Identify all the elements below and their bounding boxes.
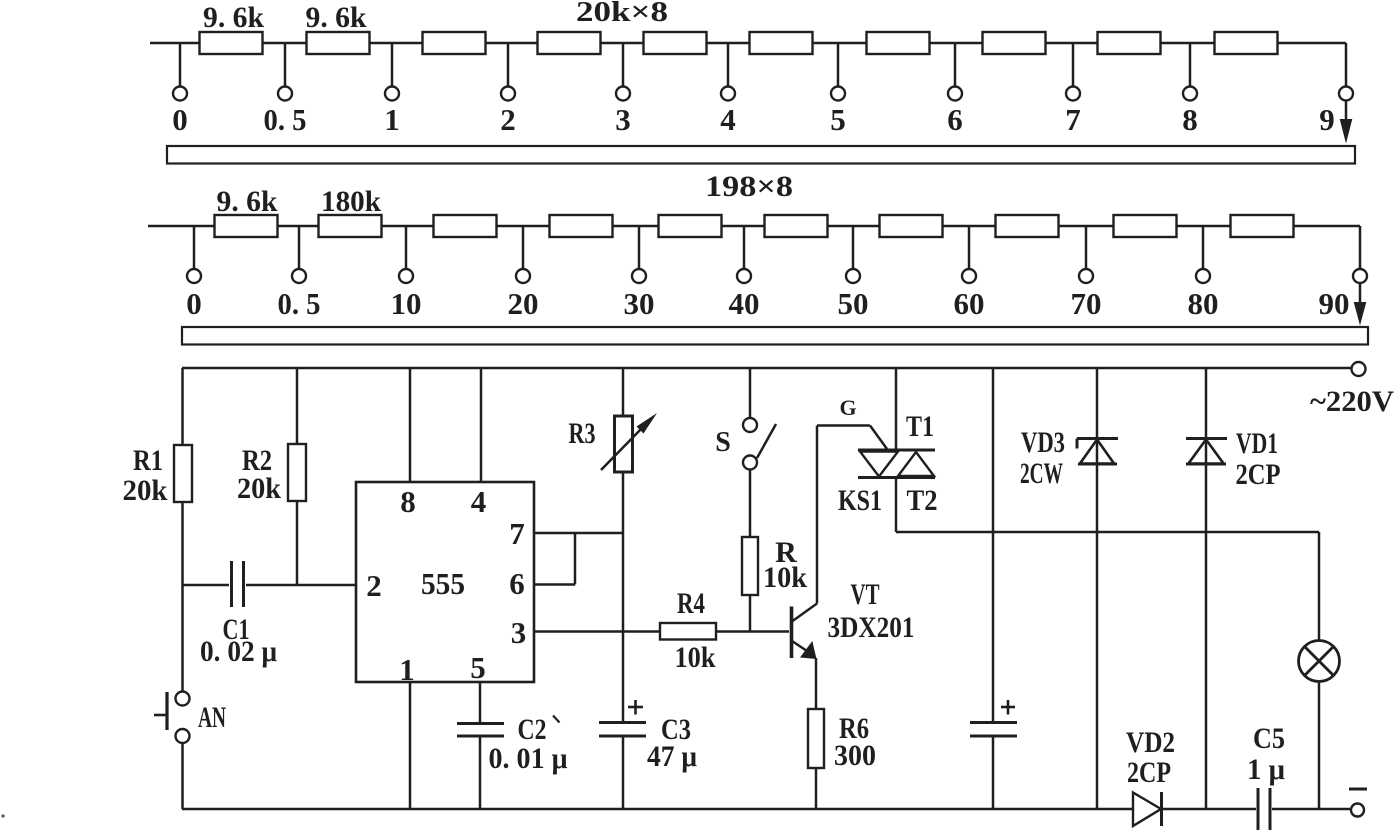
svg-text:0. 02 μ: 0. 02 μ: [200, 635, 277, 668]
svg-text:50: 50: [838, 286, 869, 321]
svg-text:0: 0: [172, 102, 188, 137]
svg-text:3DX201: 3DX201: [828, 611, 915, 644]
svg-text:S: S: [715, 427, 731, 458]
svg-text:7: 7: [509, 516, 525, 551]
svg-text:180k: 180k: [321, 185, 381, 218]
svg-text:1: 1: [384, 102, 400, 137]
svg-text:3: 3: [615, 102, 631, 137]
svg-text:8: 8: [1182, 102, 1198, 137]
svg-text:2: 2: [366, 568, 382, 603]
svg-text:10k: 10k: [763, 561, 807, 594]
svg-text:20: 20: [508, 286, 539, 321]
svg-text:0. 5: 0. 5: [278, 286, 321, 321]
svg-text:7: 7: [1065, 102, 1081, 137]
svg-text:5: 5: [830, 102, 846, 137]
svg-text:VD2: VD2: [1126, 726, 1175, 759]
svg-text:9. 6k: 9. 6k: [203, 1, 264, 34]
svg-text:555: 555: [421, 566, 465, 601]
svg-text:20k: 20k: [123, 474, 168, 507]
svg-text:6: 6: [947, 102, 963, 137]
svg-text:20k×8: 20k×8: [576, 0, 668, 28]
svg-text:3: 3: [511, 615, 527, 650]
svg-text:4: 4: [471, 484, 487, 519]
svg-text:10: 10: [391, 286, 422, 321]
svg-text:KS1: KS1: [838, 484, 882, 517]
svg-text:4: 4: [720, 102, 736, 137]
svg-text:5: 5: [470, 650, 486, 685]
svg-text:2CP: 2CP: [1236, 458, 1281, 491]
svg-text:9. 6k: 9. 6k: [217, 185, 278, 218]
svg-text:0: 0: [186, 286, 202, 321]
svg-text:AN: AN: [198, 701, 226, 734]
svg-text:10k: 10k: [675, 641, 716, 674]
svg-text:1: 1: [399, 652, 415, 687]
svg-text:300: 300: [834, 739, 876, 772]
svg-text:~220V: ~220V: [1310, 385, 1394, 418]
svg-text:R1: R1: [133, 444, 163, 477]
svg-text:40: 40: [729, 286, 760, 321]
svg-text:90: 90: [1319, 286, 1350, 321]
svg-text:2CP: 2CP: [1127, 756, 1171, 789]
svg-text:80: 80: [1188, 286, 1219, 321]
svg-text:2CW: 2CW: [1020, 457, 1063, 490]
svg-text:6: 6: [509, 566, 525, 601]
svg-text:60: 60: [954, 286, 985, 321]
svg-text:198×8: 198×8: [705, 170, 793, 203]
svg-text:VD3: VD3: [1021, 426, 1065, 459]
svg-text:C5: C5: [1253, 722, 1285, 755]
svg-text:R3: R3: [569, 417, 596, 450]
svg-text:2: 2: [500, 102, 516, 137]
svg-text:9: 9: [1319, 102, 1335, 137]
svg-text:47 μ: 47 μ: [647, 740, 697, 773]
svg-text:20k: 20k: [237, 472, 281, 505]
svg-text:T1: T1: [906, 410, 934, 443]
svg-text:VT: VT: [851, 578, 880, 611]
svg-text:8: 8: [400, 484, 416, 519]
svg-text:70: 70: [1071, 286, 1102, 321]
svg-text:VD1: VD1: [1236, 427, 1278, 460]
svg-text:G: G: [839, 395, 856, 420]
svg-text:1 μ: 1 μ: [1247, 753, 1285, 786]
svg-text:T2: T2: [907, 484, 938, 517]
svg-text:0. 01 μ: 0. 01 μ: [489, 742, 568, 775]
svg-text:0. 5: 0. 5: [264, 102, 307, 137]
svg-text:30: 30: [624, 286, 655, 321]
svg-text:9. 6k: 9. 6k: [306, 1, 367, 34]
svg-text:R4: R4: [677, 587, 705, 620]
